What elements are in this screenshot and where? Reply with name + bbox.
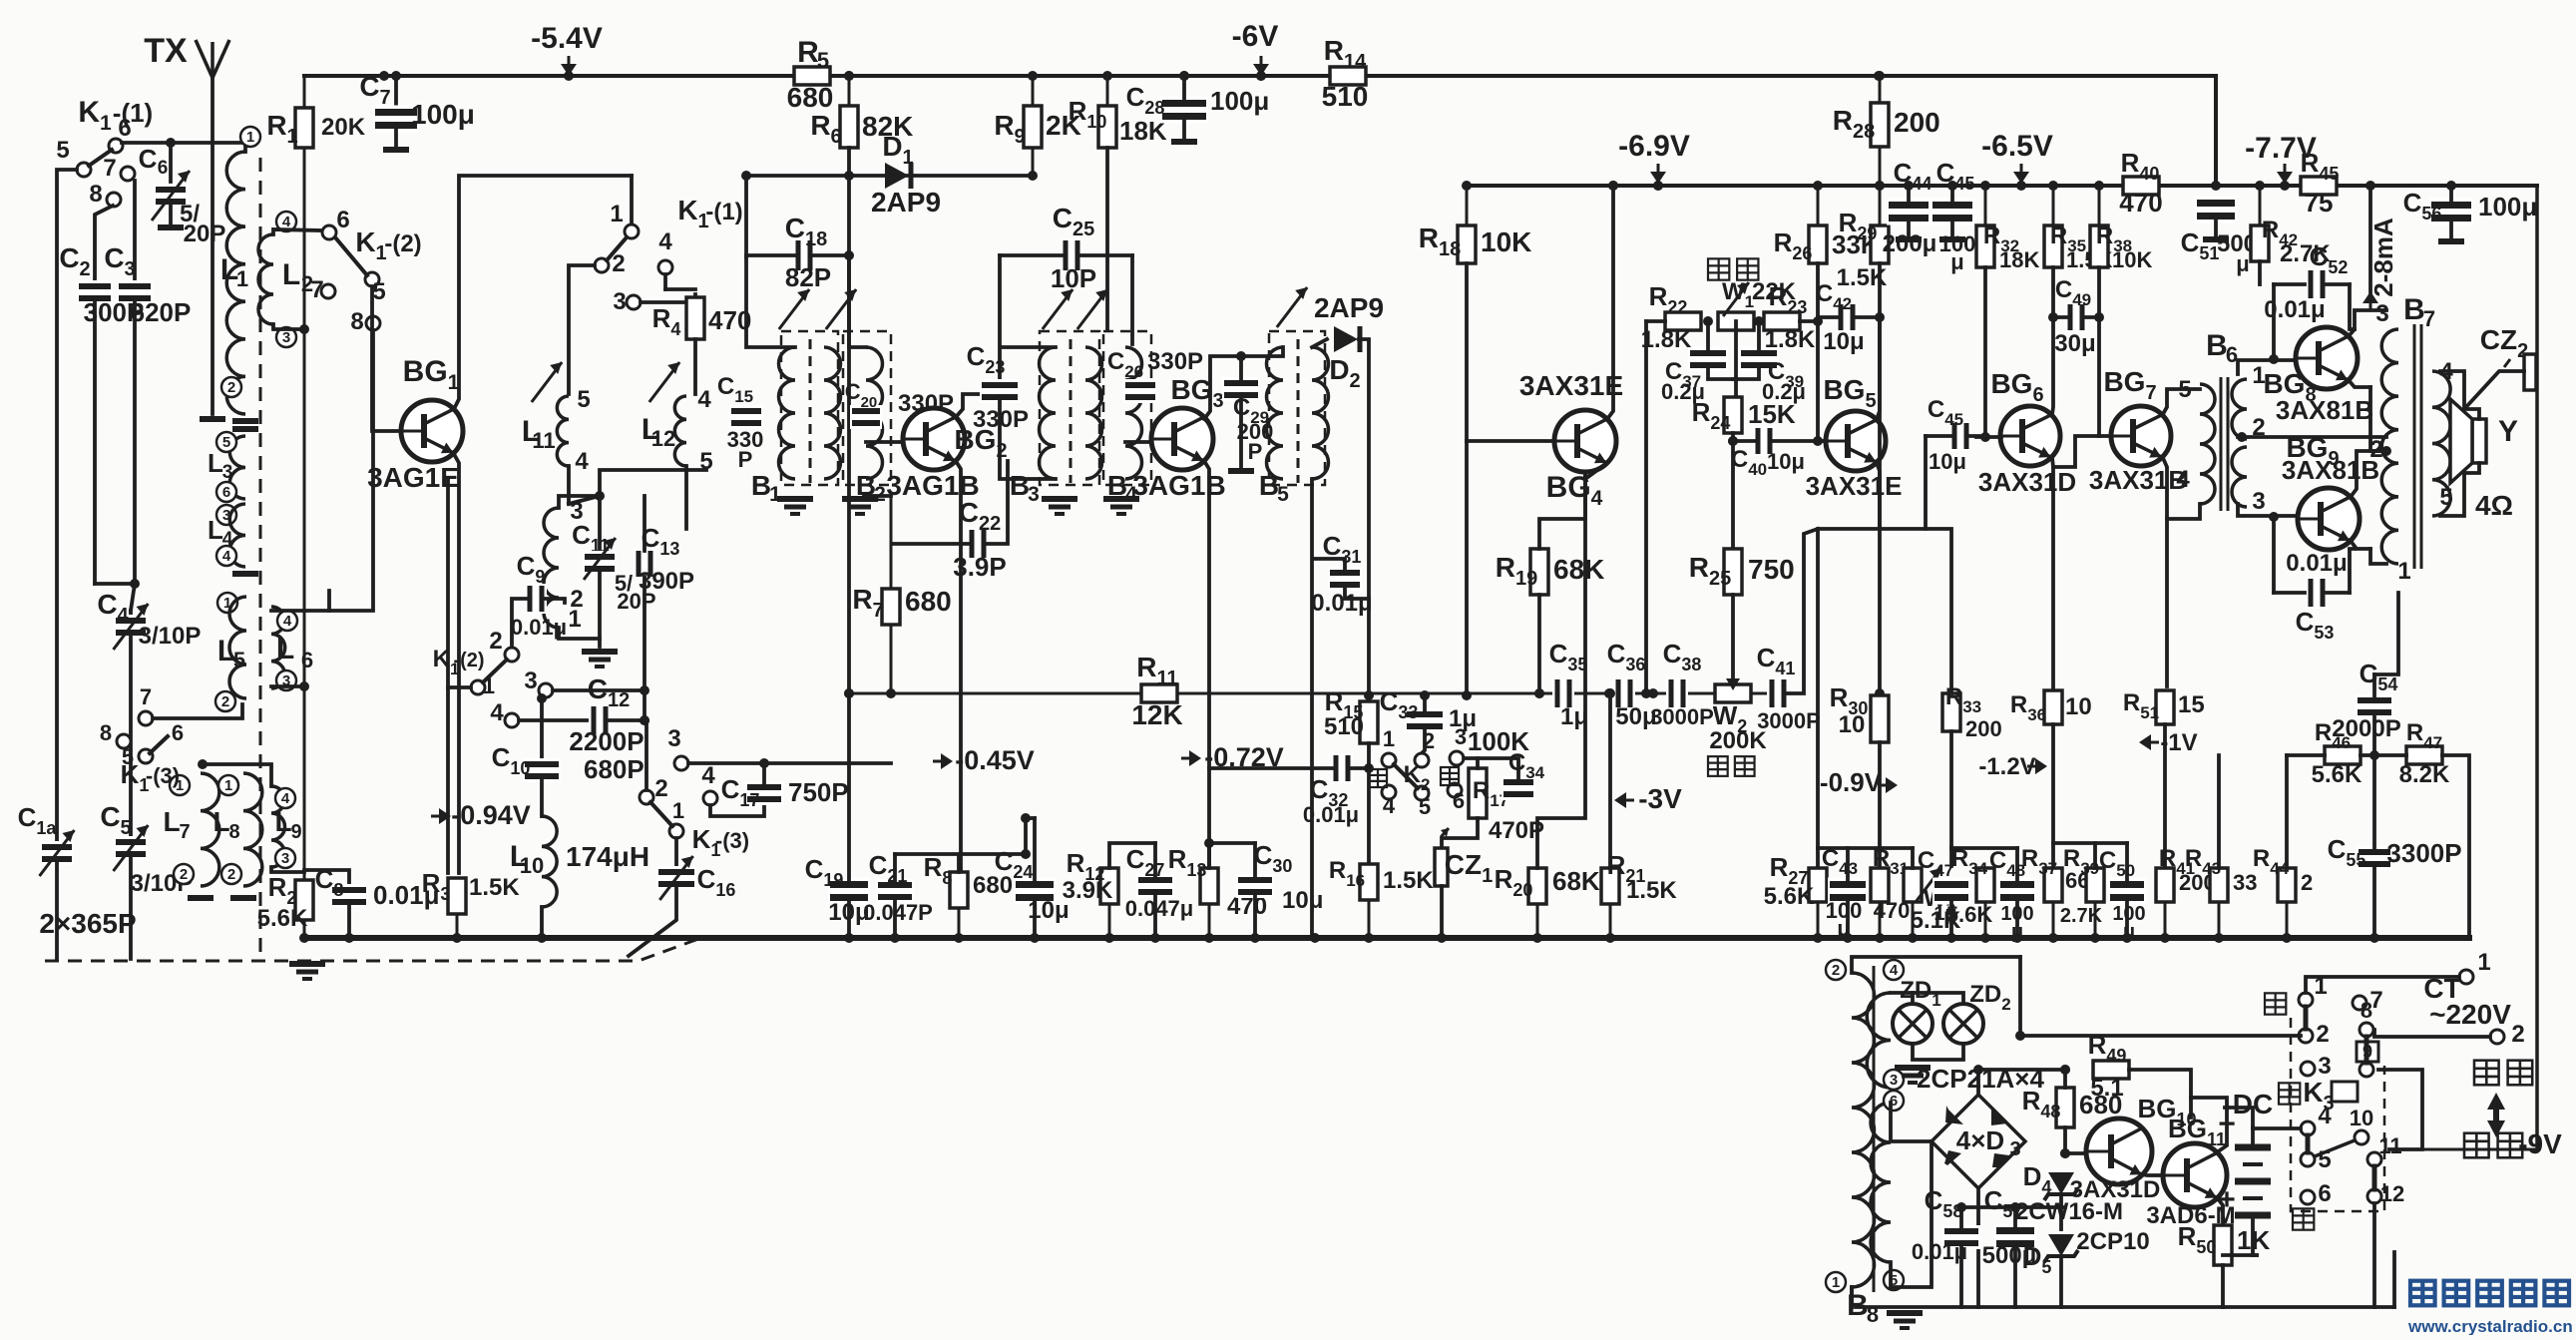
wire antenna lead down	[211, 78, 215, 414]
wire B5 secondary bottom	[1310, 479, 1314, 938]
resistor R31 value	[1874, 898, 1911, 923]
resistor R2 label	[268, 872, 297, 908]
wire C46 left drop	[1880, 436, 1926, 529]
node L6 pin3	[276, 670, 296, 690]
wire C3 down	[131, 301, 135, 611]
switch K1-(1) contact 5	[77, 163, 91, 177]
svg-text:3.9K: 3.9K	[1063, 877, 1113, 904]
capacitor C6 value	[180, 201, 200, 227]
svg-text:3AX31E: 3AX31E	[1519, 370, 1623, 401]
svg-text:1: 1	[1383, 726, 1395, 751]
diode D2	[1334, 326, 1360, 352]
node junction dot 0	[391, 71, 401, 81]
resistor R44 value	[2301, 870, 2313, 895]
switch K1-(2)b label suffix	[453, 650, 484, 671]
capacitor C12 label	[588, 673, 630, 711]
node junction dot 63	[640, 685, 649, 695]
wire K1-1b drop	[630, 176, 634, 224]
inductor L4	[229, 504, 245, 567]
node R48 top	[2060, 1065, 2070, 1075]
svg-text:B: B	[751, 470, 771, 501]
svg-text:5: 5	[2178, 376, 2191, 403]
node L4 pin4	[216, 546, 236, 566]
resistor R14 label	[1324, 35, 1367, 73]
svg-text:-1V: -1V	[2160, 729, 2197, 756]
svg-text:3/10P: 3/10P	[139, 623, 202, 650]
svg-text:3: 3	[1890, 1072, 1898, 1089]
resistor R5 value	[787, 82, 834, 113]
inductor L11	[557, 396, 569, 466]
inductor L12	[674, 396, 686, 466]
switch K2 contact 6 number	[1453, 788, 1465, 813]
capacitor C37 value	[1661, 379, 1705, 404]
ground B3	[1042, 499, 1077, 514]
capacitor C52 label	[2310, 241, 2349, 277]
resistor R15 value	[1324, 713, 1364, 740]
resistor R40 value	[2119, 188, 2162, 218]
svg-text:5: 5	[1419, 794, 1431, 819]
svg-text:10: 10	[520, 853, 544, 878]
node BG4 collector bus2	[1608, 181, 1618, 191]
node junction dot 18	[2094, 181, 2104, 191]
transistor BG11 label	[2168, 1114, 2226, 1149]
svg-text:5.6K: 5.6K	[1764, 883, 1815, 910]
wire C52 right	[2325, 282, 2350, 286]
capacitor C28 label	[1126, 82, 1165, 118]
wire osc top link	[569, 470, 706, 504]
svg-text:0.01μ: 0.01μ	[1311, 590, 1372, 617]
resistor R5 label sub	[817, 48, 829, 73]
switch K1-(1) contact 7	[121, 167, 135, 181]
inductor L10 label sub	[520, 853, 544, 878]
resistor R6 label	[810, 110, 841, 148]
resistor R10 value	[1119, 116, 1167, 146]
node -6V supply label	[1232, 20, 1279, 53]
switch K1-(1)b contact 2	[595, 258, 609, 272]
node C28 ground bar	[1171, 139, 1197, 145]
svg-text:4: 4	[575, 448, 589, 475]
svg-text:9: 9	[290, 821, 301, 843]
wire B2 top	[849, 255, 866, 347]
switch K1-(2) contact 8	[366, 316, 380, 330]
svg-text:680: 680	[787, 82, 834, 113]
svg-text:2.7K: 2.7K	[2060, 905, 2103, 927]
wire C29 bottom stub	[1239, 396, 1243, 469]
svg-text:8: 8	[2361, 998, 2372, 1023]
potentiometer W1 label	[1722, 278, 1754, 311]
transformer B4 frame	[1103, 331, 1151, 485]
wire C25 right drop	[1130, 255, 1134, 344]
resistor R45 value	[2305, 188, 2334, 218]
node junction dot 35	[844, 933, 854, 943]
svg-text:1: 1	[2397, 558, 2410, 585]
wire AGC line D1	[746, 174, 1033, 178]
switch K2 contact 5 number	[1419, 794, 1431, 819]
wire C42 right	[1855, 315, 1880, 319]
wire contact8 down	[329, 330, 373, 611]
capacitor C30 label	[1254, 840, 1293, 876]
node junction dot 32	[344, 933, 354, 943]
capacitor C6 label sub	[158, 158, 169, 179]
capacitor C5 label	[100, 801, 131, 839]
svg-text:5: 5	[233, 648, 245, 672]
wire power rail right corner	[2392, 1252, 2396, 1307]
node 2-8mA arrow	[2362, 291, 2378, 311]
node junction dot 41	[1204, 933, 1214, 943]
switch K2 label	[1404, 761, 1431, 794]
svg-text:6: 6	[336, 207, 349, 233]
node Losc pin1	[568, 606, 581, 633]
transformer B3 label sub	[1028, 483, 1040, 506]
rectifier 4xD3 diodes	[1944, 1106, 2009, 1167]
wire B2 column	[847, 176, 851, 693]
svg-text:-(3): -(3)	[146, 763, 180, 788]
svg-text:4: 4	[281, 790, 290, 807]
capacitor C26	[1123, 379, 1157, 403]
svg-text:5: 5	[577, 386, 590, 413]
capacitor C6 value 2	[184, 221, 226, 247]
resistor R44 label	[2253, 845, 2290, 878]
capacitor C39 label	[1768, 358, 1804, 391]
wire contact7 to C3	[133, 181, 137, 283]
inductor L3 label	[208, 448, 223, 478]
capacitor C7	[373, 106, 419, 133]
node L7 pin1	[170, 775, 190, 795]
switch K1-(1)b contact 3 number	[613, 288, 626, 315]
switch K3 contact 8	[2360, 1023, 2373, 1037]
wire D4 down	[2059, 1197, 2063, 1229]
node junction dot 10	[1653, 181, 1663, 191]
capacitor C46 value	[1929, 449, 1966, 474]
switch K1-(1) contact 5 number	[56, 137, 69, 164]
inductor L8	[243, 773, 262, 886]
node R21 mid bus	[1605, 688, 1615, 698]
svg-text:20K: 20K	[321, 114, 366, 141]
resistor R22 value	[1641, 326, 1692, 353]
switch K1-(1) contact 6 number	[118, 115, 131, 142]
capacitor C31	[1328, 567, 1362, 591]
diode D4 zener	[2044, 1172, 2078, 1200]
wire C33 stub bottom	[1422, 727, 1425, 753]
node L7 bottom bar	[188, 895, 214, 901]
capacitor C20	[850, 405, 882, 429]
svg-text:15K: 15K	[1748, 399, 1796, 429]
potentiometer W1	[1718, 312, 1754, 330]
node -1.2V label	[1978, 753, 2035, 780]
node B8 pin3	[1884, 1070, 1904, 1090]
transformer B4 winding	[1125, 347, 1142, 479]
wire C7 bottom	[394, 126, 398, 148]
resistor R35 label	[2050, 223, 2086, 255]
resistor R22	[1665, 312, 1701, 330]
wire C53 right	[2325, 591, 2350, 595]
transformer B8 core	[1873, 966, 1876, 1292]
switch K1-(1)b arm	[607, 237, 627, 260]
node -6.9V arrow	[1650, 164, 1666, 184]
wire contact3d right	[688, 761, 891, 765]
wire K1-2b contact1 left	[448, 685, 471, 689]
wire R48 top	[2063, 1070, 2067, 1088]
switch K1-(1) arm	[89, 150, 112, 166]
svg-text:8: 8	[89, 181, 102, 208]
resistor R7 value	[905, 586, 952, 617]
wire C13 top	[643, 496, 646, 551]
inductor L1	[226, 152, 245, 414]
capacitor C39	[1739, 347, 1779, 371]
node junction dot 73	[1956, 1202, 1966, 1212]
wire C31 left	[1315, 559, 1345, 572]
diode D2 type	[1314, 292, 1384, 323]
svg-text:3: 3	[282, 329, 290, 346]
svg-text:μ: μ	[1950, 249, 1963, 274]
potentiometer W1 value	[1752, 278, 1797, 305]
switch K1-(3)b contact 4 number	[490, 699, 504, 726]
wire D5 down	[2059, 1259, 2063, 1307]
node junction dot 70	[1703, 316, 1713, 326]
switch K3 label	[2303, 1077, 2334, 1115]
node BG6 base junction	[1980, 432, 1990, 442]
node -6V arrow	[1253, 56, 1269, 76]
wire C54 top	[2372, 674, 2376, 699]
wire L12 bottom down	[684, 466, 688, 529]
resistor R23	[1764, 312, 1800, 330]
resistor R18 value	[1481, 226, 1531, 257]
wire C8 link	[304, 870, 349, 886]
node antenna lead end	[200, 416, 225, 422]
resistor R34 label	[1951, 845, 1988, 878]
svg-text:6: 6	[2318, 1180, 2331, 1207]
wire C7 feed	[394, 76, 398, 104]
svg-text:5: 5	[56, 137, 69, 164]
node junction dot 77	[1973, 1065, 1983, 1075]
node junction dot 45	[1437, 933, 1447, 943]
svg-text:L: L	[163, 806, 180, 837]
node C52 base junction	[2269, 354, 2279, 364]
switch K1-(2)b contact 1 number	[483, 673, 495, 698]
resistor R11	[1141, 684, 1177, 702]
svg-text:4: 4	[701, 762, 715, 789]
node C7 ground bar	[383, 147, 409, 153]
node junction dot 4	[1102, 71, 1112, 81]
switch K1-(3) contact 7	[139, 711, 153, 725]
switch K1-(3)c label suffix	[715, 828, 749, 853]
wire contact3 right	[553, 688, 644, 692]
switch K3 arm 4-5	[2306, 1135, 2311, 1152]
resistor R34	[1976, 868, 1994, 938]
capacitor C43	[1828, 878, 1868, 905]
switch K1-(3) contact 7 number	[140, 684, 152, 709]
node B8 pin2	[1826, 960, 1846, 980]
node L12 pin5	[699, 448, 712, 475]
capacitor C43 value2	[1837, 916, 1850, 941]
svg-text:L: L	[208, 515, 223, 545]
capacitor C6 arrow	[152, 171, 190, 221]
svg-text:3AG1B: 3AG1B	[1132, 470, 1225, 501]
transistor BG1 type	[367, 462, 459, 493]
svg-text:5.1: 5.1	[2090, 1075, 2123, 1102]
wire R49 right	[2129, 1070, 2191, 1117]
switch K1-(2) arm	[335, 237, 367, 275]
wire BG2 emitter	[956, 461, 961, 873]
svg-text:2AP9: 2AP9	[1314, 292, 1384, 323]
wire C13 bottom	[643, 577, 646, 716]
node -1V label	[2160, 729, 2197, 756]
capacitor C11 label	[572, 520, 610, 556]
wire C8 down	[347, 903, 351, 938]
terminal CT voltage	[2429, 999, 2511, 1030]
resistor R24 label	[1692, 397, 1731, 433]
wire BG9 emitter to B7 bottom	[2370, 549, 2386, 564]
capacitor C31 value	[1311, 590, 1372, 617]
svg-text:3000P: 3000P	[1757, 708, 1821, 733]
resistor R47 label	[2406, 719, 2442, 752]
wire C54 bottom	[2372, 713, 2376, 755]
svg-text:L: L	[274, 806, 291, 837]
resistor R42	[2251, 186, 2269, 261]
transformer B8 label sub	[1867, 1302, 1879, 1327]
node C28 top	[1179, 71, 1189, 81]
wire BG6 collector	[2052, 317, 2053, 414]
capacitor C53 label	[2296, 607, 2335, 643]
capacitor C55 value	[2386, 838, 2461, 868]
capacitor C35	[1552, 677, 1574, 709]
wire BG5 collector	[1877, 317, 1880, 419]
switch K2 contact 2	[1415, 753, 1429, 767]
svg-text:1: 1	[224, 777, 232, 794]
capacitor C51 value2	[2236, 251, 2249, 276]
capacitor C49 label	[2055, 276, 2091, 309]
inductor L3 label sub	[222, 462, 233, 483]
wire C25 left drop	[998, 255, 1002, 344]
resistor R31	[1871, 868, 1889, 938]
switch K1-(1) contact 8 number	[89, 181, 102, 208]
wire B7 center tap feed	[2370, 387, 2386, 451]
switch K3 contact 3	[2301, 1062, 2315, 1076]
node L6 pin4	[277, 611, 297, 631]
switch K1-(2)b label	[433, 646, 460, 678]
capacitor C33 label	[1380, 686, 1419, 722]
resistor R51	[2156, 690, 2174, 724]
node -7.7V arrow	[2277, 164, 2293, 184]
wire B8 left side	[1850, 1287, 1854, 1307]
node junction dot 5	[1179, 71, 1189, 81]
inductor L12 label sub	[651, 426, 675, 451]
resistor R45	[2301, 177, 2337, 195]
wire C25 right	[1079, 253, 1132, 257]
switch K1-(3)c label	[692, 824, 721, 860]
resistor R6	[840, 76, 858, 148]
wire BG11 collector	[2191, 1098, 2227, 1152]
switch K2 contact 2 number	[1423, 728, 1435, 753]
transformer B1 label	[751, 470, 771, 501]
inductor L11 label sub	[532, 428, 555, 453]
resistor R13	[1200, 868, 1218, 938]
svg-text:4: 4	[222, 548, 231, 565]
wire B6 primary bottom	[2167, 504, 2200, 519]
wire L1 bottom to L5 area	[129, 611, 133, 614]
svg-text:5: 5	[1277, 483, 1289, 506]
transformer B5 trimmer arrow	[1277, 287, 1307, 327]
wire 2-8mA branch	[2368, 186, 2372, 299]
resistor R46 value	[2312, 761, 2362, 788]
svg-text:2: 2	[227, 866, 235, 883]
svg-text:470: 470	[2119, 188, 2162, 218]
switch K1-(3)c arm	[650, 802, 672, 826]
wire R26 to base	[1816, 263, 1820, 321]
switch K3 bai box	[2332, 1082, 2358, 1102]
node L3 pin6	[216, 482, 236, 502]
svg-text:3: 3	[2009, 1138, 2020, 1160]
switch K1-(3) contact 5	[139, 749, 153, 763]
transformer B6 label sub	[2226, 342, 2238, 367]
switch K1-(1)b label suffix	[705, 199, 742, 225]
wire R12 top	[1109, 843, 1155, 868]
switch K1-(2) label suffix	[384, 230, 421, 257]
capacitor C55 label	[2328, 834, 2366, 870]
capacitor C26 label	[1107, 348, 1143, 381]
switch K1-(2) contact 7	[321, 284, 335, 298]
node R28 top	[1875, 71, 1885, 81]
capacitor C31 label	[1323, 531, 1362, 567]
wire fb mid	[2361, 753, 2406, 757]
wire C18 right	[812, 253, 849, 257]
switch K1-(2) contact 5	[365, 272, 379, 286]
wire C30 column	[1253, 843, 1257, 879]
capacitor C19 label	[805, 854, 844, 890]
switch K2 contact 4	[1382, 785, 1396, 799]
node junction dot 1	[564, 71, 574, 81]
svg-text:B: B	[1259, 470, 1279, 501]
capacitor C38 value	[1650, 704, 1714, 729]
switch K3 contact 10 number	[2350, 1106, 2373, 1130]
wire contact4 stub	[665, 287, 695, 291]
wire right edge rail down	[2535, 186, 2539, 1149]
wire C50 column	[2125, 843, 2129, 884]
wire BG2 collector	[956, 394, 998, 417]
svg-text:2: 2	[1423, 728, 1435, 753]
wire C6 bottom stub	[169, 202, 173, 225]
switch K3 kai label	[2265, 993, 2286, 1014]
wire CT1 to K3	[2306, 977, 2459, 993]
node junction dot 54	[2012, 933, 2022, 943]
svg-text:R: R	[797, 36, 819, 69]
capacitor C56 label	[2403, 188, 2442, 223]
transistor BG7 label	[2103, 366, 2156, 404]
svg-text:-6V: -6V	[1232, 20, 1279, 53]
inductor L10	[542, 816, 557, 907]
wire BG4 emitter down	[1585, 463, 1607, 479]
capacitor C40 value	[1767, 449, 1805, 474]
svg-text:8.2K: 8.2K	[2399, 761, 2450, 788]
node C53 base junction	[2269, 512, 2279, 522]
wire C56 top	[2449, 186, 2453, 205]
transformer B8 secondary upper	[1867, 993, 1891, 1088]
transistor BG7	[2111, 406, 2171, 466]
wire BG11 emitter down	[2217, 1197, 2223, 1255]
node mode arrow up	[2487, 1093, 2505, 1117]
wire BG2 collector to B3	[998, 347, 1056, 394]
transformer B6 core	[2221, 377, 2228, 511]
svg-text:100μ: 100μ	[411, 99, 475, 130]
capacitor C49	[2065, 302, 2087, 332]
transformer B2 winding	[866, 347, 883, 479]
node mid bus left end	[844, 688, 854, 698]
resistor R12	[1100, 868, 1118, 938]
node -5.4V supply label	[531, 22, 603, 55]
svg-text:P: P	[738, 447, 753, 472]
wire B7 sec top to speaker	[2440, 371, 2479, 419]
svg-text:2: 2	[227, 379, 235, 396]
